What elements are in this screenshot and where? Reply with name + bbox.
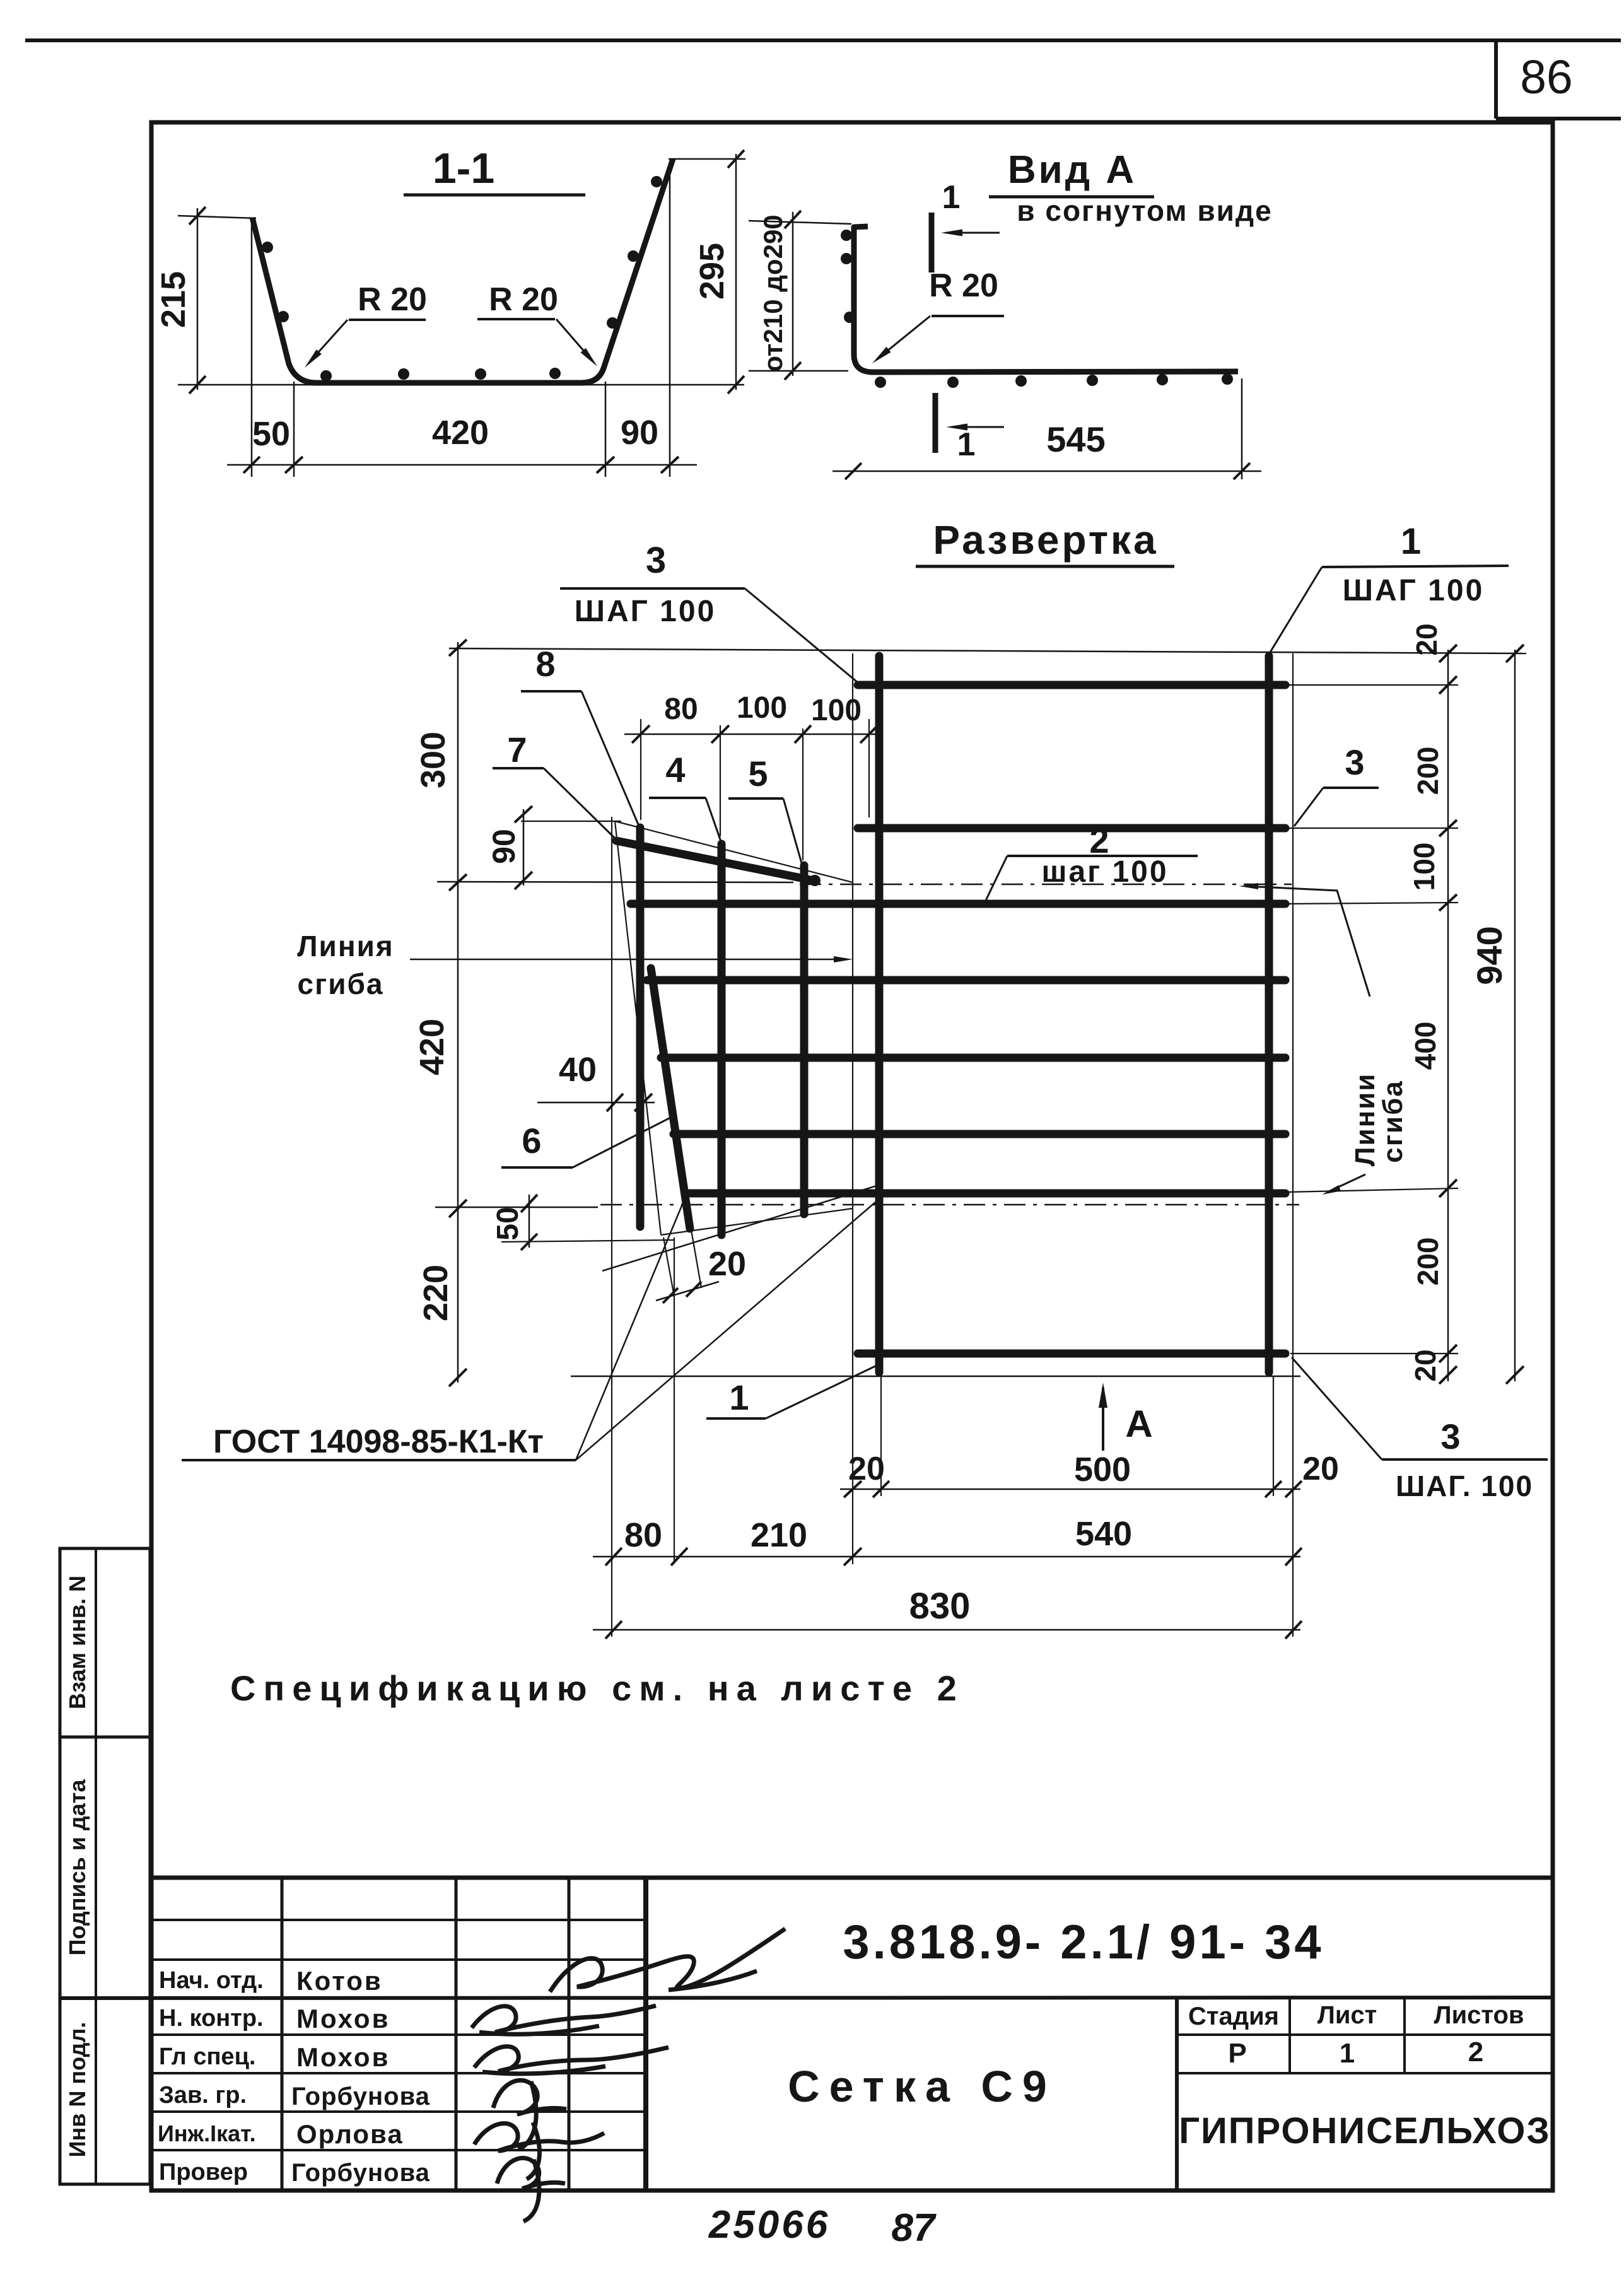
- svg-text:20: 20: [1410, 623, 1443, 655]
- dim 295 extension top: [669, 158, 745, 160]
- title block row line b: [151, 1958, 646, 1961]
- svg-text:90: 90: [621, 414, 658, 452]
- short vertical bar 4: [636, 828, 645, 1227]
- horizontal bar row4: [647, 976, 1285, 985]
- signature squiggle 4: [493, 2080, 566, 2150]
- rebar dots on horizontal leg: [875, 377, 886, 388]
- horizontal bar row7 at fold: [685, 1190, 1285, 1198]
- row1 extensions: [880, 1376, 882, 1496]
- dim row 830: [593, 1629, 1300, 1631]
- svg-text:40: 40: [559, 1051, 597, 1089]
- title block row line f: [151, 2149, 646, 2151]
- sloped bar 6: [651, 968, 690, 1229]
- sidebar cell divider 2: [60, 1997, 150, 2000]
- svg-text:2: 2: [1089, 821, 1109, 860]
- bar extension right row1: [1287, 684, 1458, 686]
- svg-text:в согнутом виде: в согнутом виде: [1017, 194, 1272, 227]
- svg-text:4: 4: [665, 750, 685, 790]
- svg-text:1: 1: [942, 179, 961, 216]
- dim 50 ext: [501, 1240, 674, 1242]
- svg-text:940: 940: [1469, 926, 1509, 985]
- svg-text:50: 50: [491, 1207, 525, 1240]
- GOST leader 2: [576, 1202, 875, 1460]
- svg-text:ГОСТ 14098-85-К1-Кт: ГОСТ 14098-85-К1-Кт: [213, 1424, 544, 1460]
- svg-text:3.818.9- 2.1/ 91- 34: 3.818.9- 2.1/ 91- 34: [843, 1916, 1324, 1969]
- sheet sloped bottom edge: [661, 1208, 853, 1235]
- svg-text:500: 500: [1074, 1451, 1131, 1489]
- svg-text:шаг 100: шаг 100: [1041, 855, 1168, 889]
- title block top line: [151, 1876, 1553, 1880]
- svg-text:сгиба: сгиба: [297, 968, 383, 1000]
- title block col line 1: [281, 1878, 284, 2190]
- fold line leader left: [410, 959, 846, 961]
- section marker 1 top: [929, 213, 935, 272]
- right outer dim line: [1514, 650, 1516, 1381]
- svg-text:90: 90: [486, 829, 522, 864]
- short vertical bar at 100: [800, 865, 809, 1214]
- view A L-profile: [854, 226, 1238, 372]
- svg-text:Горбунова: Горбунова: [291, 2159, 430, 2187]
- svg-text:20: 20: [848, 1451, 885, 1487]
- svg-text:Орлова: Орлова: [296, 2119, 404, 2149]
- title block col line 4 thick: [643, 1878, 648, 2190]
- section 1-1 channel profile: [252, 159, 673, 383]
- drawing frame: [151, 122, 1553, 2190]
- bar extension right bottom: [1290, 1353, 1458, 1354]
- svg-text:Стадия: Стадия: [1188, 2003, 1279, 2030]
- signature squiggle 1: [550, 1929, 785, 1992]
- title block col stadia: [1175, 1997, 1179, 2190]
- svg-text:100: 100: [737, 691, 787, 725]
- svg-text:R 20: R 20: [489, 281, 558, 318]
- dim row 80-210-540: [593, 1556, 1300, 1558]
- svg-text:ШАГ 100: ШАГ 100: [575, 595, 716, 628]
- fold line bottom dash-dot: [600, 1204, 1299, 1206]
- sheet right edge line: [1292, 653, 1294, 1637]
- dim 50 line: [529, 1195, 530, 1248]
- dim row 20-500-20: [840, 1489, 1300, 1490]
- fold line top solid part: [437, 882, 793, 882]
- svg-text:Вид А: Вид А: [1008, 148, 1136, 192]
- stadia list listov header line: [1177, 2033, 1553, 2036]
- svg-text:Инж.Iкат.: Инж.Iкат.: [158, 2120, 256, 2146]
- svg-text:545: 545: [1046, 419, 1105, 459]
- horizontal bar 3 row1: [858, 681, 1285, 689]
- sloped bar 7: [616, 841, 814, 880]
- svg-text:1: 1: [729, 1377, 749, 1417]
- svg-text:20: 20: [1409, 1349, 1442, 1381]
- rebar dots on bottom: [320, 370, 332, 382]
- svg-text:5: 5: [748, 754, 768, 793]
- svg-text:Линии: Линии: [1350, 1073, 1381, 1167]
- title block row line d: [151, 2072, 646, 2074]
- fold line top dash-dot: [800, 884, 1292, 886]
- horizontal bar 3 row2: [858, 824, 1285, 833]
- svg-text:1: 1: [1401, 521, 1421, 562]
- svg-text:Зав. гр.: Зав. гр.: [159, 2082, 247, 2109]
- dim 215 extension top: [178, 216, 256, 218]
- signature squiggle 6: [497, 2158, 565, 2221]
- bar extension right row7: [1287, 1188, 1458, 1192]
- dim 295 line: [735, 154, 737, 390]
- svg-text:Мохов: Мохов: [296, 2004, 390, 2033]
- svg-text:1: 1: [957, 426, 976, 463]
- rebar dots on vertical leg: [841, 230, 852, 241]
- svg-text:80: 80: [664, 693, 698, 726]
- dim 90 line: [523, 809, 525, 886]
- svg-text:295: 295: [693, 243, 731, 300]
- signature squiggle 2: [472, 2006, 656, 2034]
- svg-text:200: 200: [1411, 1237, 1444, 1286]
- dim 80-100-100 extension lines: [640, 719, 641, 820]
- svg-text:20: 20: [708, 1245, 746, 1283]
- title block thick divider: [60, 1997, 1553, 1998]
- svg-text:215: 215: [155, 271, 192, 328]
- sheet sloped top edge: [615, 821, 853, 882]
- svg-text:87: 87: [892, 2206, 937, 2250]
- dim ot 210 do 290 line: [792, 212, 794, 376]
- svg-text:от210 до290: от210 до290: [758, 214, 788, 371]
- svg-text:25066: 25066: [708, 2203, 830, 2247]
- svg-text:220: 220: [417, 1265, 455, 1321]
- svg-text:Лист: Лист: [1317, 2001, 1377, 2029]
- dim 20 slanted line: [656, 1282, 719, 1301]
- vertical bar 1 left: [875, 656, 884, 1372]
- svg-text:7: 7: [507, 730, 527, 769]
- svg-text:Взам инв. N: Взам инв. N: [64, 1576, 90, 1709]
- svg-text:Р: Р: [1228, 2038, 1246, 2069]
- dim 40 line: [537, 1102, 655, 1104]
- svg-text:86: 86: [1520, 50, 1572, 103]
- svg-text:Гл спец.: Гл спец.: [159, 2044, 255, 2070]
- title block row line a: [151, 1919, 646, 1921]
- svg-text:Провер: Провер: [159, 2159, 248, 2185]
- svg-text:Инв N подл.: Инв N подл.: [64, 2022, 90, 2158]
- svg-text:Листов: Листов: [1434, 2001, 1524, 2029]
- svg-text:Мохов: Мохов: [296, 2042, 390, 2072]
- svg-text:Подпись и дата: Подпись и дата: [64, 1779, 90, 1956]
- title block col line 3: [568, 1878, 571, 2190]
- svg-text:ШАГ. 100: ШАГ. 100: [1396, 1470, 1533, 1502]
- fold line bottom solid part: [435, 1207, 598, 1208]
- sheet left fold edge line: [852, 653, 853, 1564]
- vertical bar 1 right: [1265, 656, 1273, 1372]
- stadia col divider 1: [1288, 1997, 1291, 2073]
- bar extension right row3: [1287, 903, 1458, 904]
- dim 80-100-100 line: [624, 734, 883, 735]
- right inner dim line: [1447, 650, 1449, 1381]
- svg-text:3: 3: [646, 540, 666, 581]
- svg-text:сгиба: сгиба: [1377, 1080, 1408, 1163]
- svg-text:Н. контр.: Н. контр.: [159, 2005, 264, 2032]
- svg-text:420: 420: [413, 1019, 451, 1075]
- signature squiggle 5: [474, 2122, 604, 2179]
- dim 50-420-90 extension lines: [251, 218, 253, 477]
- bar extension right row2: [1287, 828, 1458, 829]
- svg-text:R 20: R 20: [929, 267, 998, 304]
- rebar dots on left leg: [262, 242, 273, 253]
- dim 545 extension: [1241, 378, 1243, 479]
- view direction arrow A: [1102, 1388, 1104, 1451]
- svg-text:2: 2: [1468, 2037, 1483, 2068]
- svg-text:540: 540: [1075, 1515, 1132, 1553]
- left dim column line: [457, 642, 459, 1383]
- fold lines leader upper: [1246, 886, 1370, 997]
- horizontal bar 2 row3: [631, 900, 1285, 908]
- dim 215 line: [197, 208, 199, 390]
- svg-text:420: 420: [432, 414, 489, 452]
- svg-text:1-1: 1-1: [433, 144, 494, 192]
- stadia col divider 2: [1403, 1997, 1406, 2073]
- dim 20 slanted ext lines: [663, 1237, 674, 1293]
- svg-text:Сетка С9: Сетка С9: [788, 2062, 1056, 2111]
- sheet sloped left edge: [615, 821, 661, 1235]
- bottom extension line: [178, 384, 744, 386]
- title block col line 2: [455, 1878, 458, 2190]
- dim 545 line: [832, 471, 1261, 472]
- page top rule: [25, 38, 1621, 42]
- horizontal bar row5: [661, 1054, 1285, 1062]
- svg-text:3: 3: [1440, 1417, 1460, 1456]
- title block row line e: [151, 2110, 646, 2113]
- top edge extension line: [449, 648, 1526, 653]
- svg-text:1: 1: [1340, 2038, 1355, 2069]
- sidebar cell divider 1: [60, 1736, 150, 1739]
- rebar dots on right leg: [651, 176, 662, 187]
- svg-text:830: 830: [909, 1586, 971, 1627]
- horizontal bar row6: [674, 1130, 1285, 1138]
- signature squiggle 3: [474, 2047, 669, 2074]
- svg-text:Котов: Котов: [296, 1966, 383, 1996]
- svg-text:Линия: Линия: [297, 930, 394, 962]
- ext line from bar6 tip: [674, 1237, 675, 1563]
- svg-text:80: 80: [624, 1516, 662, 1554]
- left sidebar box: [60, 1548, 150, 2184]
- svg-text:400: 400: [1409, 1022, 1442, 1070]
- page number box: [1494, 40, 1498, 119]
- short vertical bar 5: [718, 844, 726, 1235]
- svg-text:R 20: R 20: [358, 281, 427, 318]
- fold lines leader lower: [1328, 1174, 1365, 1192]
- svg-text:8: 8: [535, 644, 555, 684]
- svg-text:100: 100: [1408, 843, 1440, 891]
- GOST leader 1: [576, 1200, 684, 1460]
- svg-text:100: 100: [811, 694, 862, 727]
- section marker 1 bottom: [933, 393, 938, 453]
- svg-text:3: 3: [1345, 742, 1364, 782]
- svg-text:Нач. отд.: Нач. отд.: [159, 1967, 264, 1994]
- svg-text:ГИПРОНИСЕЛЬХОЗ: ГИПРОНИСЕЛЬХОЗ: [1179, 2110, 1551, 2151]
- bottom edge extension line: [571, 1376, 1300, 1377]
- GOST leader 3: [602, 1186, 877, 1271]
- title block row line c: [151, 2033, 646, 2036]
- left development ext line: [611, 817, 612, 1637]
- svg-text:6: 6: [522, 1121, 541, 1161]
- sidebar inner divider: [95, 1548, 97, 2184]
- svg-text:Горбунова: Горбунова: [291, 2083, 430, 2110]
- dim 50-420-90 line: [227, 464, 697, 466]
- svg-text:200: 200: [1411, 747, 1444, 795]
- svg-text:300: 300: [414, 732, 452, 788]
- svg-text:20: 20: [1302, 1451, 1339, 1487]
- horizontal bar 3 bottom: [858, 1350, 1285, 1358]
- dim 90 extension: [521, 821, 621, 822]
- stadia list listov value line: [1177, 2072, 1553, 2074]
- svg-text:А: А: [1125, 1403, 1152, 1445]
- svg-text:Развертка: Развертка: [933, 517, 1158, 563]
- svg-text:Спецификацию см. на листе 2: Спецификацию см. на листе 2: [230, 1668, 964, 1708]
- svg-text:210: 210: [751, 1516, 807, 1554]
- dim ot 210 do 290 extensions: [749, 221, 851, 224]
- svg-text:50: 50: [252, 415, 290, 453]
- svg-text:ШАГ 100: ШАГ 100: [1343, 574, 1485, 607]
